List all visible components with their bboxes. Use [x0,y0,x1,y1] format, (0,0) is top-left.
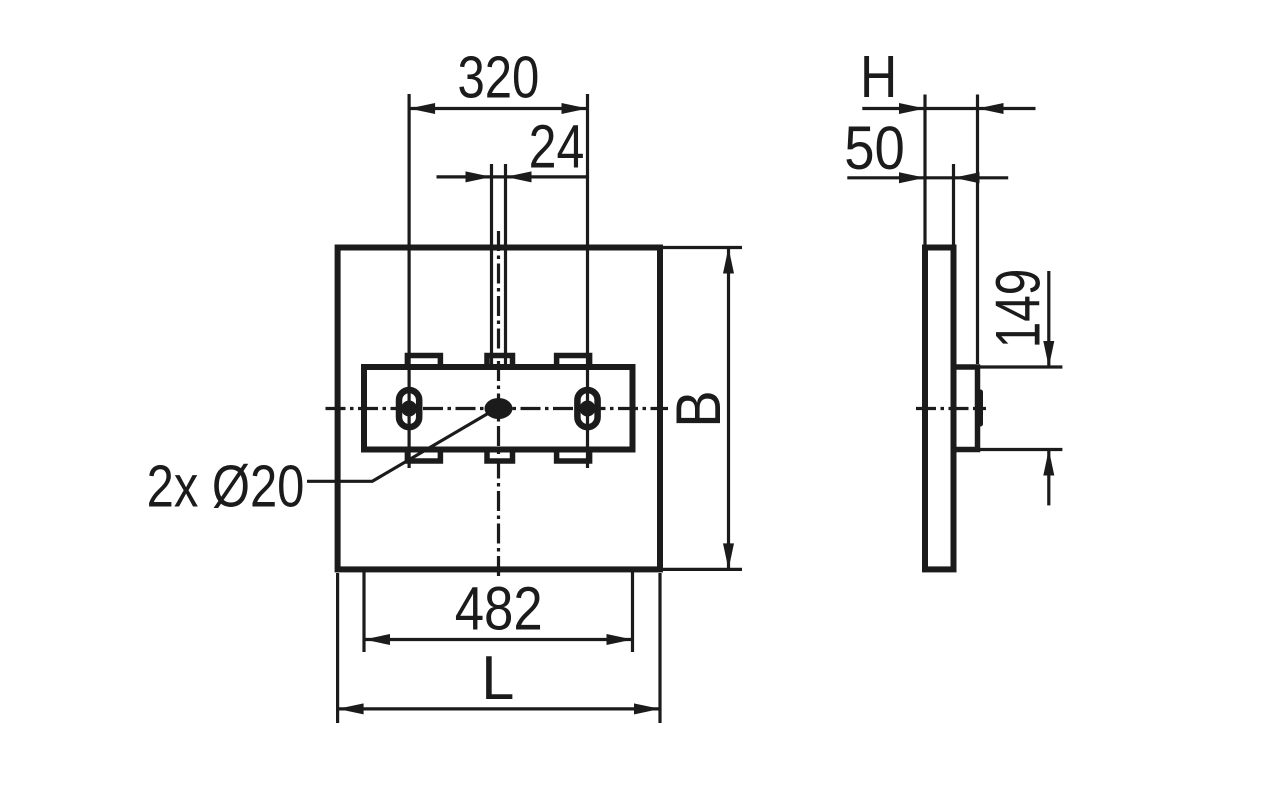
svg-text:2x Ø20: 2x Ø20 [147,453,305,520]
svg-text:24: 24 [529,113,585,181]
svg-text:149: 149 [984,269,1054,348]
svg-text:482: 482 [455,575,543,643]
svg-text:B: B [664,390,734,427]
svg-text:50: 50 [844,114,905,183]
svg-text:L: L [481,643,514,713]
svg-text:H: H [860,43,897,110]
svg-text:320: 320 [457,45,539,111]
